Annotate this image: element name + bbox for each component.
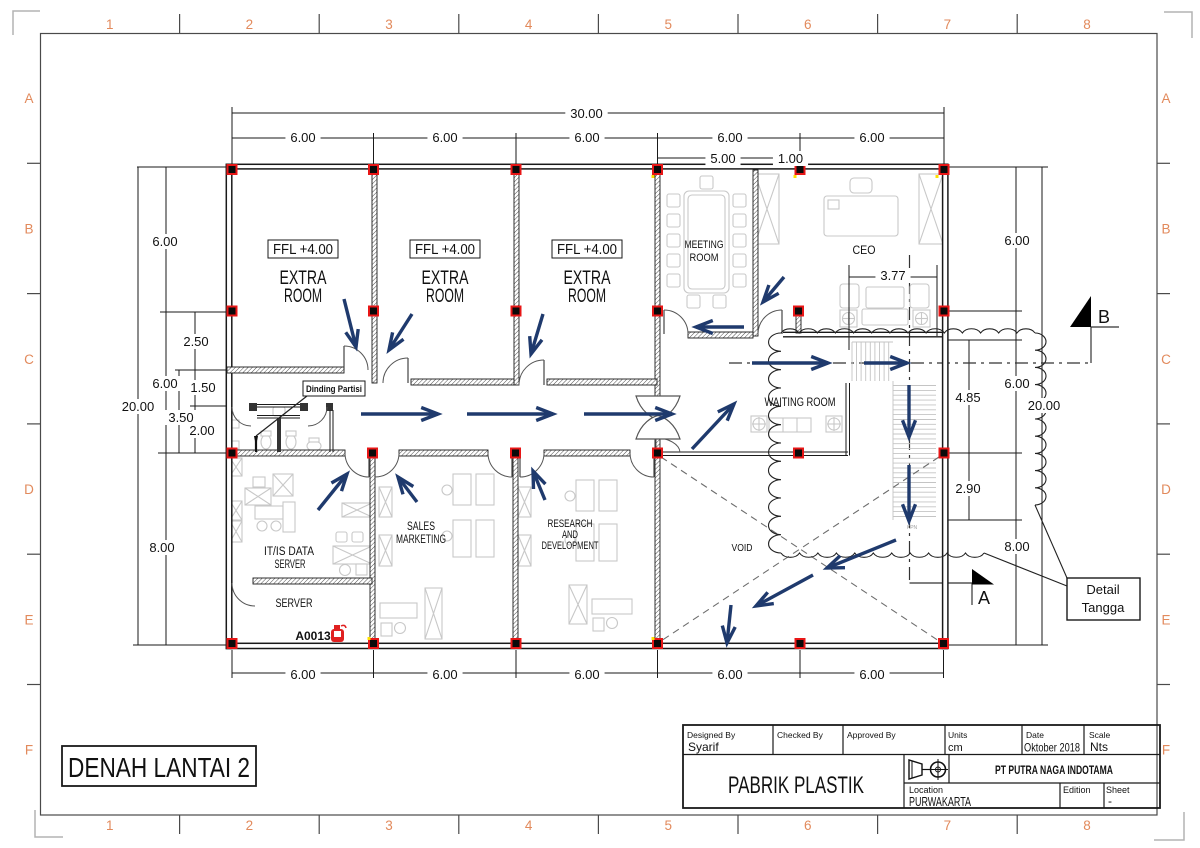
svg-text:ROOM: ROOM [284,286,322,307]
svg-text:DEVELOPMENT: DEVELOPMENT [542,540,599,552]
svg-text:Units: Units [948,730,967,740]
svg-text:1.50: 1.50 [190,380,215,395]
svg-text:8.00: 8.00 [1004,539,1029,554]
svg-text:A: A [1161,91,1170,106]
svg-text:6.00: 6.00 [859,130,884,145]
svg-text:7: 7 [944,17,952,32]
svg-text:2: 2 [246,818,254,833]
svg-text:2: 2 [246,17,254,32]
svg-text:DENAH LANTAI 2: DENAH LANTAI 2 [68,752,250,783]
svg-text:8.00: 8.00 [149,540,174,555]
svg-text:5.00: 5.00 [710,151,735,166]
svg-text:IT/IS DATA: IT/IS DATA [264,546,314,558]
svg-text:4: 4 [525,818,533,833]
svg-text:30.00: 30.00 [570,106,603,121]
svg-text:ROOM: ROOM [568,286,606,307]
svg-text:6.00: 6.00 [1004,376,1029,391]
svg-text:3: 3 [385,818,393,833]
svg-text:1: 1 [106,818,114,833]
svg-text:VOID: VOID [732,542,753,554]
svg-text:KPN: KPN [907,525,918,531]
svg-text:Nts: Nts [1090,740,1108,754]
svg-text:6.00: 6.00 [1004,233,1029,248]
svg-text:8: 8 [1083,17,1091,32]
svg-text:F: F [25,743,33,758]
svg-text:1: 1 [106,17,114,32]
svg-text:7: 7 [944,818,952,833]
svg-text:Oktober 2018: Oktober 2018 [1024,741,1080,755]
svg-text:20.00: 20.00 [1028,398,1061,413]
svg-text:6.00: 6.00 [152,376,177,391]
svg-text:6: 6 [804,17,812,32]
svg-text:6.00: 6.00 [432,667,457,682]
svg-text:Scale: Scale [1089,730,1111,740]
svg-text:Approved By: Approved By [847,730,896,740]
svg-text:FFL +4.00: FFL +4.00 [415,242,475,258]
svg-text:6.00: 6.00 [717,130,742,145]
svg-text:ROOM: ROOM [690,252,719,264]
svg-text:F: F [1162,743,1170,758]
svg-text:MEETING: MEETING [685,239,724,251]
svg-text:5: 5 [664,818,672,833]
svg-text:6.00: 6.00 [432,130,457,145]
svg-text:D: D [1161,482,1171,497]
svg-text:6.00: 6.00 [717,667,742,682]
svg-text:ROOM: ROOM [426,286,464,307]
svg-text:A: A [24,91,33,106]
svg-text:C: C [24,352,34,367]
svg-text:Detail: Detail [1086,582,1119,597]
svg-text:6.00: 6.00 [290,130,315,145]
svg-text:3: 3 [385,17,393,32]
svg-text:20.00: 20.00 [122,399,155,414]
svg-text:Dinding Partisi: Dinding Partisi [306,384,362,395]
svg-text:SERVER: SERVER [275,559,306,571]
svg-text:3.77: 3.77 [880,268,905,283]
svg-text:6.00: 6.00 [574,130,599,145]
svg-text:Checked By: Checked By [777,730,824,740]
svg-text:FFL +4.00: FFL +4.00 [273,242,333,258]
svg-text:2.00: 2.00 [189,423,214,438]
svg-text:WAITING ROOM: WAITING ROOM [765,397,836,409]
svg-text:SERVER: SERVER [276,596,313,610]
svg-text:2.90: 2.90 [955,481,980,496]
svg-text:A: A [978,588,990,608]
svg-text:6: 6 [804,818,812,833]
svg-text:6.00: 6.00 [859,667,884,682]
svg-text:A0013: A0013 [295,629,331,643]
svg-text:D: D [24,482,34,497]
svg-text:MARKETING: MARKETING [396,534,446,546]
svg-text:4: 4 [525,17,533,32]
svg-text:C: C [1161,352,1171,367]
svg-text:Edition: Edition [1063,785,1091,795]
svg-text:PURWAKARTA: PURWAKARTA [909,795,971,809]
svg-text:cm: cm [948,742,963,754]
svg-text:1.00: 1.00 [778,151,803,166]
svg-text:PT PUTRA NAGA INDOTAMA: PT PUTRA NAGA INDOTAMA [995,765,1113,777]
svg-text:5: 5 [664,17,672,32]
svg-text:B: B [24,221,33,236]
svg-text:B: B [1161,221,1170,236]
svg-text:FFL +4.00: FFL +4.00 [557,242,617,258]
svg-text:-: - [1108,794,1112,808]
svg-text:E: E [1161,612,1170,627]
svg-text:E: E [24,612,33,627]
svg-text:CEO: CEO [853,245,876,257]
svg-text:SALES: SALES [407,521,435,533]
svg-text:Location: Location [909,785,943,795]
svg-text:6.00: 6.00 [290,667,315,682]
svg-text:Syarif: Syarif [688,740,719,754]
svg-text:Tangga: Tangga [1082,600,1125,615]
svg-text:8: 8 [1083,818,1091,833]
svg-text:Date: Date [1026,730,1044,740]
svg-text:6.00: 6.00 [574,667,599,682]
svg-text:6.00: 6.00 [152,234,177,249]
svg-text:4.85: 4.85 [955,390,980,405]
svg-text:2.50: 2.50 [183,334,208,349]
svg-text:Designed By: Designed By [687,730,736,740]
svg-text:B: B [1098,307,1110,327]
svg-text:PABRIK PLASTIK: PABRIK PLASTIK [728,772,864,799]
